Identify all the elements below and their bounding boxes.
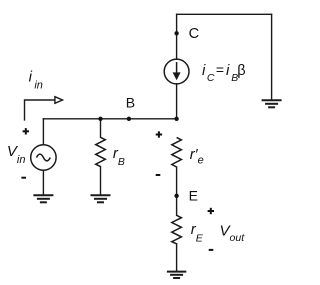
node B dot (127, 117, 131, 121)
resistor rB (96, 137, 106, 166)
minus sign (Vout bottom) (209, 249, 214, 251)
svg-text:C: C (207, 72, 215, 84)
wire main horizontal B (43, 118, 176, 120)
plus sign (r'e top) (156, 131, 162, 137)
ground (rB) (91, 195, 111, 202)
plus sign (Vout top) (208, 208, 214, 214)
node C dot (174, 31, 178, 35)
wire rE bottom (176, 244, 178, 272)
svg-text:B: B (126, 95, 135, 111)
label iC = iB beta (202, 61, 246, 84)
minus sign (r'e bottom) (156, 174, 161, 176)
sine wave inside Vin (37, 154, 51, 161)
wire rB top (100, 119, 102, 138)
node E dot (174, 194, 178, 198)
wire right vertical down to ground (271, 14, 273, 100)
resistor r'e (172, 137, 182, 167)
junction dot rB tap (98, 117, 102, 121)
plus sign (Vin top) (23, 128, 29, 134)
ground (bottom rE) (167, 272, 186, 278)
i_in arrow (25, 97, 63, 121)
wire collector vertical (176, 14, 178, 59)
wire Vin top (42, 119, 44, 145)
svg-text:β: β (237, 63, 245, 79)
wire r'e bottom to node E (176, 167, 178, 215)
ground (Vin) (33, 195, 53, 202)
svg-text:E: E (189, 187, 198, 203)
wire rB bottom (100, 167, 102, 195)
svg-text:=: = (216, 61, 224, 77)
svg-text:C: C (189, 26, 200, 42)
wire source bottom to junction (176, 84, 178, 119)
ground (top right) (262, 100, 282, 107)
voltage source Vin circle (31, 145, 56, 170)
current source arrow (173, 62, 181, 80)
junction dot collector branch (174, 117, 178, 121)
minus sign (Vin bottom) (21, 177, 26, 179)
wire top horizontal C to right (177, 13, 272, 15)
wire Vin bottom (42, 170, 44, 195)
resistor rE (172, 215, 182, 244)
current source U1 circle (164, 59, 189, 84)
